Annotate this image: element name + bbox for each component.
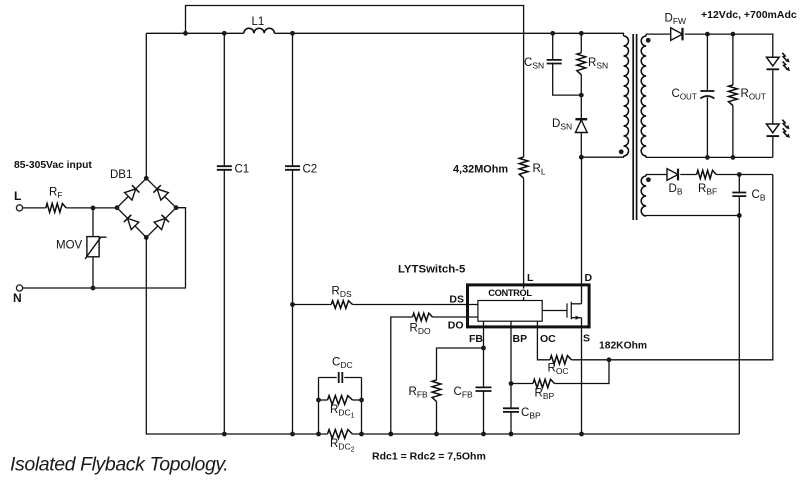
wire drain to primary (581, 156, 623, 157)
terminal N (16, 285, 22, 291)
wire RSN top (580, 33, 582, 52)
svg-text:LYTSwitch-5: LYTSwitch-5 (398, 264, 466, 276)
wire ROUT bottom (732, 106, 734, 158)
wire BP tap to RBP (511, 383, 533, 385)
svg-text:COUT: COUT (672, 88, 697, 102)
wire RFB bottom (436, 402, 438, 435)
diode DFW (671, 28, 683, 41)
node out-COUT (705, 32, 710, 37)
svg-text:N: N (13, 291, 22, 305)
resistor RDC2 (328, 430, 353, 439)
wire CB bottom (738, 196, 740, 215)
wire LED1 to LED2 (772, 70, 774, 124)
node RDC1 right (359, 398, 364, 403)
bridge edge bottom-right (146, 208, 176, 238)
inductor L1 (244, 28, 275, 33)
node gnd-BP (509, 432, 514, 437)
wire C2 top (292, 33, 294, 166)
transformer secondary winding (641, 36, 646, 156)
capacitor C1 (217, 166, 232, 170)
resistor RSN (577, 53, 586, 75)
resistor RDS (331, 301, 352, 309)
capacitor C2 (285, 166, 300, 170)
node gnd-FB (481, 432, 486, 437)
wire bridge- to ground rail (146, 237, 327, 434)
node outgnd-ROUT (731, 155, 736, 160)
svg-text:ROUT: ROUT (741, 88, 766, 102)
wire secondary top (646, 34, 671, 36)
wire RDO to DO pin (433, 316, 478, 318)
wire S pin leg (581, 318, 583, 434)
node RF-MOV junction (91, 206, 96, 211)
wire N rail (23, 208, 186, 288)
node FB tap (481, 346, 486, 351)
svg-text:DB: DB (669, 183, 683, 197)
svg-text:C2: C2 (303, 164, 318, 176)
svg-text:RFB: RFB (409, 386, 429, 400)
svg-text:L: L (527, 272, 534, 284)
wire RL to L pin (523, 178, 525, 300)
bridge edge left-bottom (117, 208, 146, 238)
wire RDC1 branch left (319, 399, 328, 401)
node MOV-N junction (91, 286, 96, 291)
primary phase dot (619, 149, 624, 154)
wire ground rail right (353, 433, 740, 435)
wire FB pin leg lower (483, 391, 485, 434)
bridge edge top-right (146, 178, 176, 207)
resistor RBP (533, 379, 555, 387)
wire D pin leg (581, 157, 583, 304)
wire DB to RBF (680, 174, 696, 176)
wire RDO leg (391, 317, 413, 434)
node bus-C2 (290, 31, 295, 36)
transformer core (633, 34, 636, 220)
capacitor CBP (503, 408, 519, 412)
wire BP pin leg lower (510, 412, 512, 434)
wire RBP to node (555, 360, 610, 384)
wire bias to ROC node (609, 175, 773, 360)
wire C1 top (223, 33, 225, 166)
wire output bottom rail (646, 156, 773, 157)
terminal L (16, 205, 22, 211)
node drain (579, 155, 584, 160)
svg-text:DFW: DFW (665, 13, 687, 27)
mosfet source arrow (576, 316, 581, 320)
svg-text:4,32MOhm: 4,32MOhm (453, 164, 508, 176)
node outgnd-COUT (705, 155, 710, 160)
wire output top rail (685, 34, 773, 57)
node BP tap (509, 381, 514, 386)
node RDC2 right (359, 432, 364, 437)
node bus-C1 (222, 31, 227, 36)
svg-text:RBP: RBP (535, 388, 555, 402)
capacitor CDC (339, 372, 343, 383)
LED2 (767, 124, 780, 133)
svg-text:RDC2: RDC2 (330, 438, 355, 454)
wire RDS left (293, 304, 332, 306)
wire RF to bridge (66, 207, 117, 209)
mosfet channel bar (570, 302, 572, 320)
node gnd-RFB (434, 432, 439, 437)
svg-text:DB1: DB1 (110, 169, 132, 181)
wire bias bottom (646, 215, 739, 218)
capacitor CB (732, 193, 746, 197)
wire CSN bottom (553, 64, 582, 96)
svg-text:MOV: MOV (56, 240, 83, 252)
svg-text:RBF: RBF (698, 183, 717, 197)
BP stub (510, 321, 512, 328)
svg-text:CBP: CBP (521, 407, 541, 421)
wire LED2 to bottom (772, 137, 774, 157)
wire CDC right leg (361, 378, 363, 435)
node bus-CSN (550, 31, 555, 36)
resistor RDO (413, 313, 433, 321)
mosfet drain wire (571, 303, 581, 305)
LED1 (767, 57, 780, 66)
wire CDC branch left (319, 377, 337, 379)
resistor RBF (697, 170, 717, 178)
svg-text:OC: OC (540, 333, 556, 345)
svg-text:DO: DO (448, 320, 464, 332)
bridge node left (115, 205, 120, 210)
node bus-RSN (579, 31, 584, 36)
wire CDC branch right (344, 377, 361, 379)
wire OC pin leg (537, 328, 550, 359)
svg-text:RDS: RDS (332, 286, 352, 300)
wire CSN top (552, 33, 554, 60)
diode DB (667, 169, 678, 181)
FB stub (483, 321, 485, 328)
bridge diode D3 (bottom-left) (128, 218, 139, 229)
svg-text:RSN: RSN (588, 57, 608, 71)
svg-text:FB: FB (469, 333, 483, 345)
wire RDC1 branch right (353, 399, 362, 401)
diode DSN (575, 120, 587, 133)
svg-text:RDC1: RDC1 (330, 404, 355, 420)
resistor RDC1 (328, 396, 353, 405)
node out-ROUT (731, 32, 736, 37)
wire MOV top (92, 208, 94, 237)
bridge diode D4 (bottom-right) (154, 219, 165, 230)
svg-text:ROC: ROC (548, 363, 569, 377)
wire DC bus (L1 to transformer) (274, 33, 623, 36)
IC package border (468, 285, 590, 327)
svg-text:S: S (583, 333, 590, 345)
secondary phase dot (646, 38, 651, 43)
wire CB top (738, 175, 740, 193)
wire bias return to ground (738, 216, 740, 435)
wire bridge+ to bus (145, 33, 147, 178)
bridge node right (174, 205, 179, 210)
IC inner control block (478, 301, 542, 322)
bridge diode D2 (right-top) (157, 189, 168, 200)
wire MOV bottom (92, 257, 94, 288)
svg-text:RDO: RDO (410, 323, 431, 337)
mosfet source wire (571, 317, 581, 319)
svg-text:Rdc1 = Rdc2 = 7,5Ohm: Rdc1 = Rdc2 = 7,5Ohm (372, 451, 486, 463)
wire C1 bottom (223, 170, 225, 434)
bias phase dot (646, 177, 651, 182)
resistor ROC (550, 356, 572, 364)
transformer primary winding (624, 36, 629, 156)
resistor RFB (432, 380, 441, 402)
bridge node bottom (144, 235, 149, 240)
svg-text:Isolated Flyback Topology.: Isolated Flyback Topology. (10, 454, 228, 476)
wire C2 bottom (292, 170, 294, 434)
wire DC bus (rail to L1) (146, 32, 244, 34)
bridge diode D1 (left-top) (125, 189, 136, 200)
bridge edge left-top (117, 178, 146, 207)
wire CDC left leg (318, 378, 320, 435)
svg-text:C1: C1 (235, 164, 250, 176)
bridge node top (144, 176, 149, 181)
svg-text:RL: RL (533, 163, 546, 177)
mosfet gate wire (542, 310, 567, 312)
svg-text:RF: RF (49, 187, 63, 201)
wire COUT top (706, 34, 708, 90)
capacitor COUT (700, 90, 714, 92)
wire RBF to corner (716, 174, 773, 176)
node bias (737, 172, 742, 177)
node bias return (737, 213, 742, 218)
wire COUT bottom (706, 97, 708, 157)
svg-text:DS: DS (449, 294, 464, 306)
node ROC-RBP-bias (607, 357, 612, 362)
node gnd-S (579, 432, 584, 437)
svg-text:D: D (585, 272, 593, 284)
wire DSN to drain node (580, 133, 582, 158)
wire bias top (646, 175, 667, 177)
svg-text:182KOhm: 182KOhm (599, 341, 647, 352)
node C2-RDS tap (290, 302, 295, 307)
control text mask (487, 289, 533, 298)
svg-text:CB: CB (752, 189, 766, 203)
svg-text:BP: BP (513, 333, 528, 345)
wire L-pin sense (top) (186, 6, 524, 158)
node gnd-C1 (222, 432, 227, 437)
svg-text:DSN: DSN (552, 118, 572, 132)
node bus-Lpin (183, 31, 188, 36)
node gnd-C2 (290, 432, 295, 437)
wire FB pin leg (483, 328, 485, 387)
wire ROC to node (572, 359, 610, 361)
transformer bias winding (641, 176, 646, 216)
svg-text:L: L (14, 189, 21, 203)
resistor RF (46, 204, 66, 213)
wire BP pin leg (510, 328, 512, 408)
node RDC2 left (316, 432, 321, 437)
varistor MOV (87, 237, 99, 257)
node gnd-RDO (388, 432, 393, 437)
svg-text:85-305Vac input: 85-305Vac input (14, 160, 92, 171)
wire FB tap to RFB (437, 348, 484, 380)
resistor ROUT (729, 85, 738, 106)
wire RSN bottom (580, 75, 582, 119)
svg-text:L1: L1 (252, 16, 265, 28)
capacitor CSN (547, 60, 562, 64)
svg-text:CDC: CDC (332, 357, 353, 371)
svg-text:+12Vdc, +700mAdc: +12Vdc, +700mAdc (701, 9, 797, 21)
OC stub (536, 321, 538, 328)
wire L to RF (23, 207, 46, 209)
mosfet gate bar (566, 303, 568, 317)
wire RDS to DS pin (353, 304, 478, 306)
svg-text:CSN: CSN (524, 57, 544, 71)
capacitor CFB (476, 387, 492, 391)
resistor RL (519, 157, 528, 178)
svg-text:CFB: CFB (454, 386, 474, 400)
wire ROUT top (732, 34, 734, 85)
svg-text:CONTROL: CONTROL (488, 288, 532, 298)
node snubber (579, 93, 584, 98)
node RDC1 left (316, 398, 321, 403)
